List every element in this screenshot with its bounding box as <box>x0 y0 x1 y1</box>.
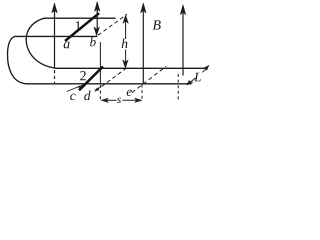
dashed boundary vertical at e <box>141 85 143 100</box>
label B <box>153 20 161 29</box>
label c <box>70 94 75 100</box>
leader tick at d <box>95 87 100 92</box>
label a <box>64 42 70 49</box>
wire upper near rail <box>15 35 97 37</box>
wire near-rail connecting curve (upper near rail to lower near rail) <box>8 36 29 83</box>
wire lower far rail <box>56 67 205 69</box>
ghost rod (dashed) at e <box>132 66 166 92</box>
ghost rod (dashed) at d <box>96 67 129 91</box>
physics figure: two-level rail track with sliding rods in magnetic field B <box>0 0 215 115</box>
dimension s (horizontal arrows) <box>101 98 142 103</box>
fall line dashed continuation below rail <box>99 85 101 100</box>
field arrow B2 (double-headed, at b) <box>94 2 100 36</box>
rod 2 (thick, on lower track) <box>79 67 103 91</box>
field arrow B3 <box>141 3 147 84</box>
leader arrow to c point <box>67 85 83 92</box>
label d <box>84 91 90 101</box>
dashed vertical at right end <box>177 74 179 102</box>
label h <box>122 39 128 48</box>
label b <box>90 37 96 46</box>
dimension L arrow upper-right <box>203 65 210 72</box>
fall line vertical below b <box>99 42 101 84</box>
wire upper far rail <box>44 17 115 19</box>
label 1 <box>76 21 81 30</box>
dimension h arrow (double-headed vertical) <box>123 15 129 69</box>
label L <box>194 73 201 82</box>
wire far-rail connecting curve (upper far rail to lower far rail) <box>26 18 56 68</box>
ghost rod (dashed) at b <box>98 14 127 35</box>
field arrow B4 <box>180 5 186 76</box>
dimension L arrow lower-left <box>187 78 196 85</box>
field arrow B1 <box>52 3 58 84</box>
label s <box>117 98 121 104</box>
label e <box>127 90 132 96</box>
rod 1 (thick, on upper track) <box>65 13 99 41</box>
wire lower near rail <box>27 83 191 85</box>
label 2 <box>80 71 86 80</box>
